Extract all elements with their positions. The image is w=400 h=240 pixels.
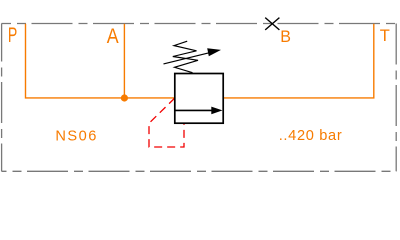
svg-text:T: T — [380, 26, 390, 45]
wire T line — [223, 24, 374, 98]
wire P line — [26, 24, 175, 98]
valve V1 body — [175, 74, 223, 124]
svg-text:A: A — [107, 25, 119, 48]
plugged port X at B — [265, 18, 279, 30]
svg-text:B: B — [280, 27, 291, 46]
svg-text:..420 bar: ..420 bar — [279, 128, 342, 144]
spring — [173, 41, 198, 72]
svg-text:P: P — [8, 24, 17, 47]
adjustment arrow — [164, 53, 209, 64]
frame bottom border — [2, 170, 397, 172]
frame left border — [1, 24, 3, 172]
frame right border — [395, 24, 397, 172]
svg-text:NS06: NS06 — [55, 129, 96, 145]
valve flow arrow — [176, 109, 212, 111]
wire A line — [123, 24, 125, 98]
frame top border — [2, 23, 397, 25]
node junction dot — [121, 94, 128, 101]
pilot line (red dashed) — [149, 98, 184, 147]
